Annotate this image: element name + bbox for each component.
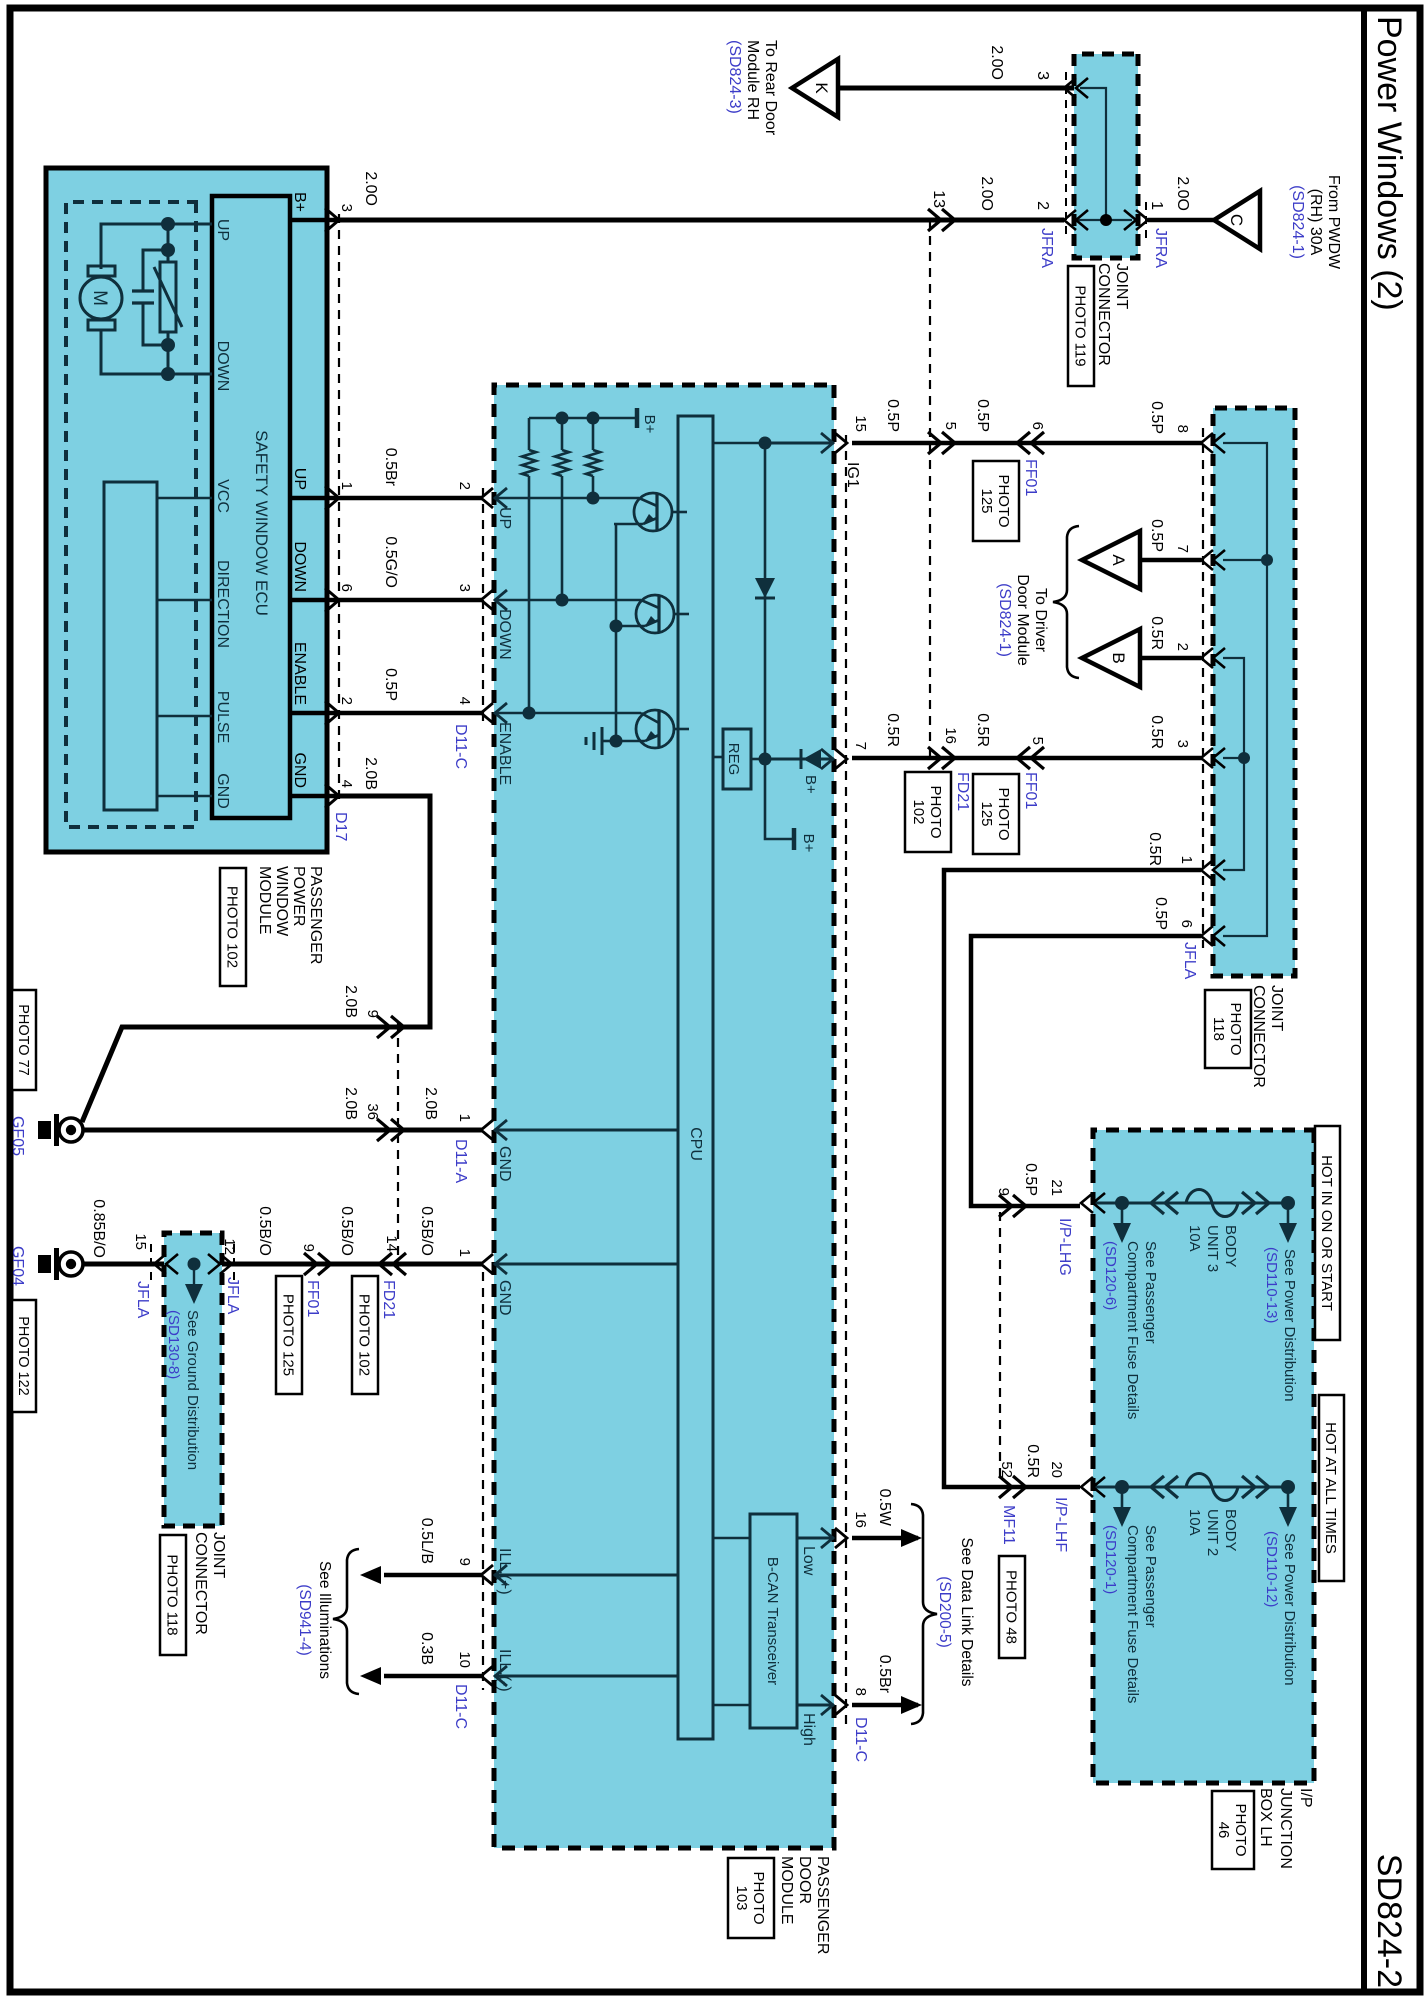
svg-text:B: B — [1109, 652, 1128, 663]
svg-text:0.5P: 0.5P — [884, 399, 901, 432]
svg-text:0.5B/O: 0.5B/O — [338, 1206, 355, 1256]
svg-text:PHOTO 77: PHOTO 77 — [15, 1004, 31, 1075]
fuse element — [1151, 1192, 1164, 1214]
svg-text:(SD110-13): (SD110-13) — [1263, 1247, 1280, 1323]
svg-text:See Data Link Details: See Data Link Details — [958, 1537, 975, 1686]
wire ECU UP to motor — [101, 224, 212, 269]
svg-text:0.5P: 0.5P — [1022, 1163, 1039, 1196]
svg-text:0.5W: 0.5W — [876, 1489, 893, 1527]
svg-text:DOWN: DOWN — [496, 609, 513, 660]
inline connector dashed boundary line (breaks 13/5/16) — [929, 220, 931, 758]
svg-text:D11-C: D11-C — [852, 1717, 869, 1762]
module bottom pins ILL dashed connector line D11-C — [482, 1272, 484, 1690]
svg-text:0.5P: 0.5P — [1148, 401, 1165, 434]
transistor Q3 (ENABLE driver) — [636, 710, 674, 748]
resistor R1 (ENABLE pull-up) — [528, 418, 531, 450]
B-CAN transceiver box — [750, 1514, 797, 1728]
svg-text:To Rear Door: To Rear Door — [762, 40, 779, 136]
svg-text:FF01: FF01 — [304, 1280, 321, 1317]
joint connector D pin 1 chevron — [1124, 210, 1136, 230]
svg-text:FF01: FF01 — [1022, 772, 1039, 809]
svg-text:36: 36 — [364, 1103, 381, 1120]
module pin 2 chevron and label UP — [481, 488, 493, 508]
svg-text:DOWN: DOWN — [214, 341, 231, 392]
svg-text:HOT AT ALL TIMES: HOT AT ALL TIMES — [1322, 1422, 1339, 1554]
joint connector F pin 12 chevron — [220, 1254, 232, 1274]
svg-text:UNIT 2: UNIT 2 — [1204, 1509, 1221, 1556]
svg-text:9: 9 — [364, 1010, 381, 1018]
triangle C connector symbol — [1214, 191, 1260, 249]
internal block stubs VCC DIRECTION PULSE GND — [157, 497, 212, 500]
fuse input reference arrow — [1121, 1487, 1124, 1509]
svg-text:(SD824-3): (SD824-3) — [726, 40, 743, 114]
svg-text:7: 7 — [852, 742, 869, 750]
svg-text:21: 21 — [1048, 1179, 1065, 1196]
svg-text:9: 9 — [456, 1558, 473, 1566]
svg-text:PHOTO 119: PHOTO 119 — [1072, 285, 1089, 366]
inline connector break 13 on 2.0O wire — [942, 209, 955, 231]
svg-text:Power Windows (2): Power Windows (2) — [1370, 16, 1408, 311]
svg-text:0.5B/O: 0.5B/O — [418, 1206, 435, 1256]
svg-text:REG: REG — [725, 743, 742, 776]
svg-text:D17: D17 — [332, 812, 349, 841]
inline connector dashed boundary (breaks 9/36/14) — [397, 1022, 399, 1270]
svg-text:B-CAN Transceiver: B-CAN Transceiver — [764, 1557, 781, 1685]
svg-text:3: 3 — [338, 204, 355, 212]
junction dot at REG — [759, 753, 772, 766]
svg-text:Compartment Fuse Details: Compartment Fuse Details — [1124, 1525, 1141, 1703]
joint connector F pin 15 chevron — [154, 1254, 166, 1274]
svg-text:6: 6 — [338, 584, 355, 592]
svg-text:3: 3 — [1174, 740, 1191, 748]
svg-text:10A: 10A — [1186, 1509, 1203, 1536]
joint connector F junction dot — [188, 1258, 201, 1271]
svg-text:2.0B: 2.0B — [342, 985, 359, 1018]
fuse output reference arrow — [1287, 1203, 1290, 1225]
svg-text:D11-C: D11-C — [452, 724, 469, 769]
joint connector D pin 2 chevron — [1064, 210, 1076, 230]
break 14 on 0.5B/O wire — [379, 1253, 392, 1275]
junction dots on resistor rail — [587, 412, 600, 425]
svg-text:UP: UP — [496, 507, 513, 529]
wire 0.5W from module pin 16 (B-CAN Low) — [852, 1536, 918, 1541]
triangle A connector symbol — [1082, 531, 1140, 589]
svg-text:1: 1 — [1148, 201, 1165, 210]
wire 0.5Br from ECU to module pin 2 (UP) — [339, 496, 483, 501]
module pin 3 chevron and label DOWN — [481, 590, 493, 610]
svg-text:2.0O: 2.0O — [1174, 176, 1191, 211]
svg-text:DOOR: DOOR — [796, 1856, 813, 1904]
fuse BODY UNIT 3 wire — [1093, 1202, 1288, 1205]
ECU pin 6 (DOWN) wire and chevron — [290, 598, 339, 603]
joint connector D pin 3 chevron — [1064, 78, 1076, 98]
svg-text:From PWDW: From PWDW — [1325, 175, 1342, 270]
svg-text:118: 118 — [1210, 1017, 1227, 1041]
stub CPU to IG1 rail left end — [713, 442, 765, 445]
svg-text:GND: GND — [214, 773, 231, 809]
svg-text:12: 12 — [221, 1238, 238, 1255]
svg-text:GND: GND — [496, 1280, 513, 1316]
svg-text:CONNECTOR: CONNECTOR — [1250, 985, 1267, 1088]
wire 0.5G/O from ECU to module pin 3 (DOWN) — [339, 598, 483, 603]
ECU connector dashed line D17 — [338, 214, 340, 806]
svg-text:SAFETY WINDOW ECU: SAFETY WINDOW ECU — [252, 430, 271, 616]
svg-text:1: 1 — [1178, 856, 1195, 864]
svg-text:(SD130-8): (SD130-8) — [165, 1310, 182, 1379]
svg-text:See Power Distribution: See Power Distribution — [1281, 1249, 1298, 1402]
svg-text:To Driver: To Driver — [1032, 588, 1049, 653]
svg-text:2.0B: 2.0B — [362, 757, 379, 790]
stubs CPU to B-CAN transceiver — [713, 1537, 750, 1540]
svg-text:2: 2 — [338, 697, 355, 705]
label HOT IN ON OR START — [1315, 1126, 1340, 1340]
joint connector JFLA box PHOTO 118 (ground distribution) — [164, 1233, 222, 1526]
svg-text:2.0O: 2.0O — [988, 45, 1005, 80]
svg-text:PHOTO 102: PHOTO 102 — [356, 1294, 373, 1376]
svg-text:102: 102 — [910, 799, 927, 824]
svg-text:FF01: FF01 — [1022, 459, 1039, 496]
svg-text:UP: UP — [214, 219, 231, 241]
svg-text:(SD941-4): (SD941-4) — [296, 1584, 313, 1656]
motor assembly dashed box — [66, 202, 196, 827]
joint connector E pin 3 chevron — [1201, 748, 1213, 768]
svg-text:2.0B: 2.0B — [342, 1087, 359, 1120]
svg-text:CONNECTOR: CONNECTOR — [1095, 263, 1112, 366]
svg-text:UP: UP — [291, 468, 308, 490]
svg-text:(SD110-12): (SD110-12) — [1263, 1531, 1280, 1607]
svg-text:PASSENGER: PASSENGER — [814, 1856, 831, 1954]
svg-text:15: 15 — [132, 1233, 149, 1250]
junction dot IG1 — [759, 437, 772, 450]
stub REG to CPU — [713, 756, 723, 759]
break 5 on 0.5R wire (FF01) — [1017, 747, 1030, 769]
joint connector E pin 1 chevron — [1201, 860, 1213, 880]
break 5 on 0.5P wire — [942, 432, 955, 454]
svg-text:7: 7 — [1174, 545, 1191, 553]
fuse input junction dot — [1115, 1196, 1129, 1210]
svg-text:See Passenger: See Passenger — [1142, 1525, 1159, 1628]
module pin 4 chevron and label ENABLE — [481, 703, 493, 723]
svg-text:M: M — [89, 290, 110, 306]
svg-text:16: 16 — [942, 727, 959, 744]
wire 0.5Br from module pin 8 (B-CAN High) — [852, 1703, 918, 1708]
svg-text:PHOTO: PHOTO — [927, 785, 944, 838]
brace for illumination wires — [333, 1549, 359, 1694]
B+ output branch with terminal — [765, 759, 792, 839]
svg-text:16: 16 — [852, 1511, 869, 1528]
svg-text:JUNCTION: JUNCTION — [1277, 1788, 1294, 1869]
label HOT AT ALL TIMES — [1319, 1395, 1344, 1581]
module GND wire 1 (D11-A) to CPU — [494, 1129, 678, 1132]
I/P junction box LH (PHOTO 46) — [1093, 1130, 1314, 1783]
brace under triangles A and B — [1053, 526, 1079, 678]
svg-text:2: 2 — [1034, 201, 1051, 210]
svg-text:6: 6 — [1029, 422, 1046, 430]
svg-text:JFLA: JFLA — [1181, 942, 1198, 980]
svg-text:13: 13 — [930, 190, 947, 208]
svg-text:PHOTO: PHOTO — [995, 474, 1012, 527]
svg-text:9: 9 — [300, 1244, 317, 1252]
CPU bar — [678, 416, 713, 1739]
wire 0.85B/O from ground GF04 up to module GND pin 1 — [83, 1262, 483, 1267]
svg-text:BOX LH: BOX LH — [1257, 1788, 1274, 1847]
svg-text:1: 1 — [338, 482, 355, 490]
svg-text:CONNECTOR: CONNECTOR — [192, 1532, 209, 1635]
motor M — [88, 266, 115, 276]
joint connector D mating dashed lines — [1065, 72, 1067, 240]
svg-text:PHOTO: PHOTO — [995, 787, 1012, 840]
svg-text:2.0O: 2.0O — [362, 171, 379, 206]
joint connector E bus pins 8-7-6 — [1223, 443, 1267, 936]
svg-text:10A: 10A — [1186, 1225, 1203, 1252]
joint connector E bus pins 2-3-1 — [1223, 658, 1244, 870]
svg-text:8: 8 — [1174, 425, 1191, 433]
ground symbol GF05 — [59, 1118, 83, 1142]
svg-text:See Ground Distribution: See Ground Distribution — [184, 1310, 201, 1470]
joint connector E pin 6 chevron — [1201, 926, 1213, 946]
svg-text:GND: GND — [496, 1146, 513, 1182]
label box PHOTO 46 — [1212, 1791, 1254, 1869]
svg-text:JOINT: JOINT — [1268, 985, 1285, 1031]
module top connector dashed line D11 — [845, 435, 847, 1725]
svg-text:(SD200-5): (SD200-5) — [936, 1576, 953, 1648]
thermistor (PTC) on motor link — [160, 262, 176, 332]
brace for data link wires — [911, 1504, 937, 1724]
fuse input junction dot — [1115, 1480, 1129, 1494]
wire 0.5R to triangle B (pin 2) — [1140, 656, 1201, 661]
svg-text:0.5P: 0.5P — [1152, 897, 1169, 930]
ground symbol GF04 — [59, 1252, 83, 1276]
svg-text:MF11: MF11 — [1000, 1505, 1017, 1545]
junction dot at pin 7 bus — [1261, 554, 1273, 566]
svg-text:10: 10 — [456, 1651, 473, 1668]
break 16 on 0.5R wire — [942, 747, 955, 769]
chassis ground inside module — [602, 740, 616, 743]
svg-text:PHOTO: PHOTO — [750, 1871, 767, 1924]
ECU internal block — [104, 482, 157, 810]
svg-text:High: High — [800, 1713, 817, 1746]
fuse output junction dot — [1281, 1480, 1295, 1494]
svg-text:0.5R: 0.5R — [884, 713, 901, 747]
svg-text:Compartment Fuse Details: Compartment Fuse Details — [1124, 1241, 1141, 1419]
joint connector D internal bus wire — [1078, 219, 1132, 221]
wire parallel RC link — [167, 224, 170, 374]
wire 2.0O from ECU B+ pin 3 up to joint connector D pin 2 — [339, 218, 1064, 223]
svg-text:BODY: BODY — [1222, 1225, 1239, 1268]
junction dot at pin 3 bus — [1238, 752, 1250, 764]
wire 2.0B from module GND pin 1 (D11-A) to ground GF05 — [84, 1128, 483, 1133]
junction dots on motor wires — [161, 217, 175, 231]
emitter rail wire — [615, 524, 618, 741]
svg-text:B+: B+ — [291, 192, 308, 212]
IG1 rail to REG junction with diode — [764, 443, 767, 759]
svg-text:PHOTO 122: PHOTO 122 — [15, 1316, 31, 1396]
junction node inside joint connector D — [1100, 214, 1112, 226]
joint connector JFRA box PHOTO 119 — [1074, 54, 1138, 258]
svg-text:14: 14 — [383, 1235, 400, 1252]
svg-text:PHOTO 102: PHOTO 102 — [224, 886, 241, 968]
diode D2 to pin 7 (B+) — [765, 758, 834, 761]
joint connector E pin 8 chevron — [1201, 433, 1213, 453]
wire 0.5P from connector E pin 6 to fuse BODY UNIT 3 — [971, 936, 1201, 1206]
svg-text:DIRECTION: DIRECTION — [214, 560, 231, 648]
transistor Q2 (DOWN driver) — [636, 595, 674, 633]
svg-text:5: 5 — [1029, 737, 1046, 745]
svg-text:Module RH: Module RH — [744, 40, 761, 120]
break 52 on fuse 2 feed — [1013, 1476, 1026, 1498]
stub from junction to REG box — [751, 758, 765, 761]
svg-text:PHOTO 48: PHOTO 48 — [1003, 1570, 1020, 1644]
svg-text:125: 125 — [978, 801, 995, 826]
svg-text:2: 2 — [456, 482, 473, 490]
module top pin 15 chevron — [835, 433, 847, 453]
diode D1 on IG1 rail — [755, 578, 775, 598]
svg-text:(SD824-1): (SD824-1) — [996, 583, 1013, 657]
break 9 on fuse 1 feed — [1013, 1195, 1026, 1217]
svg-text:0.5R: 0.5R — [1148, 616, 1165, 650]
svg-text:20: 20 — [1048, 1461, 1065, 1478]
break 6 on 0.5P wire — [1017, 432, 1030, 454]
svg-text:JFLA: JFLA — [134, 1281, 151, 1319]
svg-text:See Passenger: See Passenger — [1142, 1241, 1159, 1344]
joint connector F mating dashed lines — [150, 1244, 152, 1286]
module top pin 7 chevron — [835, 749, 847, 769]
wire from triangle C to joint connector D pin 1 — [1148, 218, 1214, 223]
svg-text:(RH) 30A: (RH) 30A — [1307, 189, 1324, 256]
svg-text:JFLA: JFLA — [224, 1277, 241, 1315]
I/P box edge chevron — [1081, 1477, 1093, 1497]
svg-text:46: 46 — [1215, 1822, 1232, 1839]
svg-text:0.5R: 0.5R — [1146, 832, 1163, 866]
svg-text:0.5P: 0.5P — [974, 399, 991, 432]
wire 2.0B from ECU GND pin 4 to ground GF05 — [82, 796, 430, 1122]
svg-text:K: K — [812, 82, 831, 94]
svg-text:(SD120-6): (SD120-6) — [1102, 1241, 1119, 1310]
module top pin 16 chevron — [835, 1528, 847, 1548]
svg-text:2.0O: 2.0O — [978, 176, 995, 211]
svg-text:DOWN: DOWN — [291, 541, 308, 592]
passenger power window module outer box — [46, 168, 327, 852]
svg-text:1: 1 — [456, 1249, 473, 1257]
svg-text:5: 5 — [942, 422, 959, 430]
svg-text:BODY: BODY — [1222, 1509, 1239, 1552]
svg-text:B+: B+ — [800, 834, 817, 853]
svg-text:JFRA: JFRA — [1038, 228, 1055, 268]
break 36 on 2.0B wire — [391, 1119, 404, 1141]
svg-text:Low: Low — [800, 1546, 817, 1576]
joint connector JFLA box PHOTO 118 — [1213, 408, 1295, 976]
wire 0.5R from module pin 7 to joint connector E pin 3 — [852, 756, 1203, 761]
svg-text:(SD824-1): (SD824-1) — [1289, 185, 1306, 259]
svg-text:0.5Br: 0.5Br — [382, 448, 399, 487]
module top pin 8 chevron — [835, 1695, 847, 1715]
svg-text:VCC: VCC — [214, 479, 231, 513]
module internal ENABLE wire to transistor Q3 — [494, 712, 641, 715]
svg-text:FD21: FD21 — [954, 772, 971, 811]
module-side connector dashed line D11-C (bottom edge, UP/DOWN/ENABLE) — [482, 488, 484, 725]
svg-text:0.5L/B: 0.5L/B — [418, 1518, 435, 1564]
B-CAN Low wire to pin 16 — [797, 1537, 834, 1540]
svg-text:PULSE: PULSE — [214, 691, 231, 743]
joint connector E pin 2 chevron — [1201, 648, 1213, 668]
I/P box edge chevron — [1081, 1193, 1093, 1213]
svg-text:WINDOW: WINDOW — [273, 866, 290, 937]
fuse input reference arrow — [1121, 1203, 1124, 1225]
svg-text:2: 2 — [1174, 643, 1191, 651]
title separator line — [1361, 8, 1367, 1992]
svg-text:4: 4 — [338, 780, 355, 788]
safety window ecu box — [212, 196, 290, 818]
fuse output junction dot — [1281, 1196, 1295, 1210]
ECU pin 4 (GND) wire and chevron — [290, 794, 339, 799]
svg-text:B+: B+ — [641, 415, 658, 434]
svg-text:B+: B+ — [802, 775, 819, 794]
wire 0.3B from module pin 10 ILL(-) — [384, 1674, 483, 1679]
wire ECU DOWN to motor — [101, 329, 212, 374]
svg-text:0.5R: 0.5R — [974, 713, 991, 747]
svg-text:PHOTO: PHOTO — [1227, 1002, 1244, 1055]
svg-text:JFRA: JFRA — [1152, 228, 1169, 268]
svg-text:See Power Distribution: See Power Distribution — [1281, 1533, 1298, 1686]
svg-text:103: 103 — [733, 1885, 750, 1910]
module ILL(-) wire pin 10 — [494, 1675, 678, 1678]
svg-text:3: 3 — [456, 584, 473, 592]
svg-text:I/P: I/P — [1297, 1788, 1314, 1808]
module ILL(+) wire pin 9 — [494, 1574, 678, 1577]
svg-text:JOINT: JOINT — [210, 1532, 227, 1578]
joint connector E pin 7 chevron — [1201, 550, 1213, 570]
ECU pin 2 (ENABLE) wire and chevron — [290, 711, 339, 716]
capacitor branch — [143, 250, 168, 291]
svg-text:I/P-LHF: I/P-LHF — [1052, 1497, 1069, 1552]
svg-text:MODULE: MODULE — [256, 866, 273, 934]
label box PHOTO 102 for power window module — [220, 868, 246, 986]
svg-text:3: 3 — [1034, 71, 1051, 80]
svg-text:6: 6 — [1178, 920, 1195, 928]
svg-text:15: 15 — [852, 415, 869, 432]
svg-text:125: 125 — [978, 488, 995, 513]
svg-text:D11-A: D11-A — [452, 1139, 469, 1183]
break 9 on 0.5B/O wire — [318, 1253, 331, 1275]
label box PHOTO 103 — [728, 1858, 774, 1938]
svg-text:CPU: CPU — [687, 1127, 704, 1161]
svg-text:UNIT 3: UNIT 3 — [1204, 1225, 1221, 1272]
inline connector dashed boundary (breaks 9/52) — [999, 1212, 1001, 1482]
label box PHOTO 122 — [12, 1300, 36, 1412]
ECU pin 1 (UP) wire and chevron — [290, 496, 339, 501]
svg-text:0.5R: 0.5R — [1148, 715, 1165, 749]
svg-text:PHOTO: PHOTO — [1232, 1803, 1249, 1856]
fuse output reference arrow — [1287, 1487, 1290, 1509]
svg-text:FD21: FD21 — [380, 1280, 397, 1319]
ECU pin 3 (B+) wire and chevron — [290, 218, 339, 223]
fuse element — [1151, 1476, 1164, 1498]
break 9 on 2.0B wire — [391, 1016, 404, 1038]
svg-text:1: 1 — [456, 1114, 473, 1122]
module internal UP wire to transistor Q1 — [494, 497, 639, 500]
svg-text:0.3B: 0.3B — [418, 1632, 435, 1665]
svg-text:GND: GND — [291, 752, 308, 788]
IG1 pin 15 wire into module — [765, 442, 834, 445]
label box PHOTO 77 — [12, 990, 36, 1090]
module GND wire 2 to CPU — [494, 1263, 678, 1266]
B-CAN High wire to pin 8 — [797, 1704, 834, 1707]
svg-text:PASSENGER: PASSENGER — [307, 866, 324, 964]
svg-text:Door Module: Door Module — [1014, 574, 1031, 666]
svg-text:0.5R: 0.5R — [1024, 1444, 1041, 1478]
resistor R2 (DOWN pull-up) — [561, 418, 564, 450]
svg-text:MODULE: MODULE — [778, 1856, 795, 1924]
